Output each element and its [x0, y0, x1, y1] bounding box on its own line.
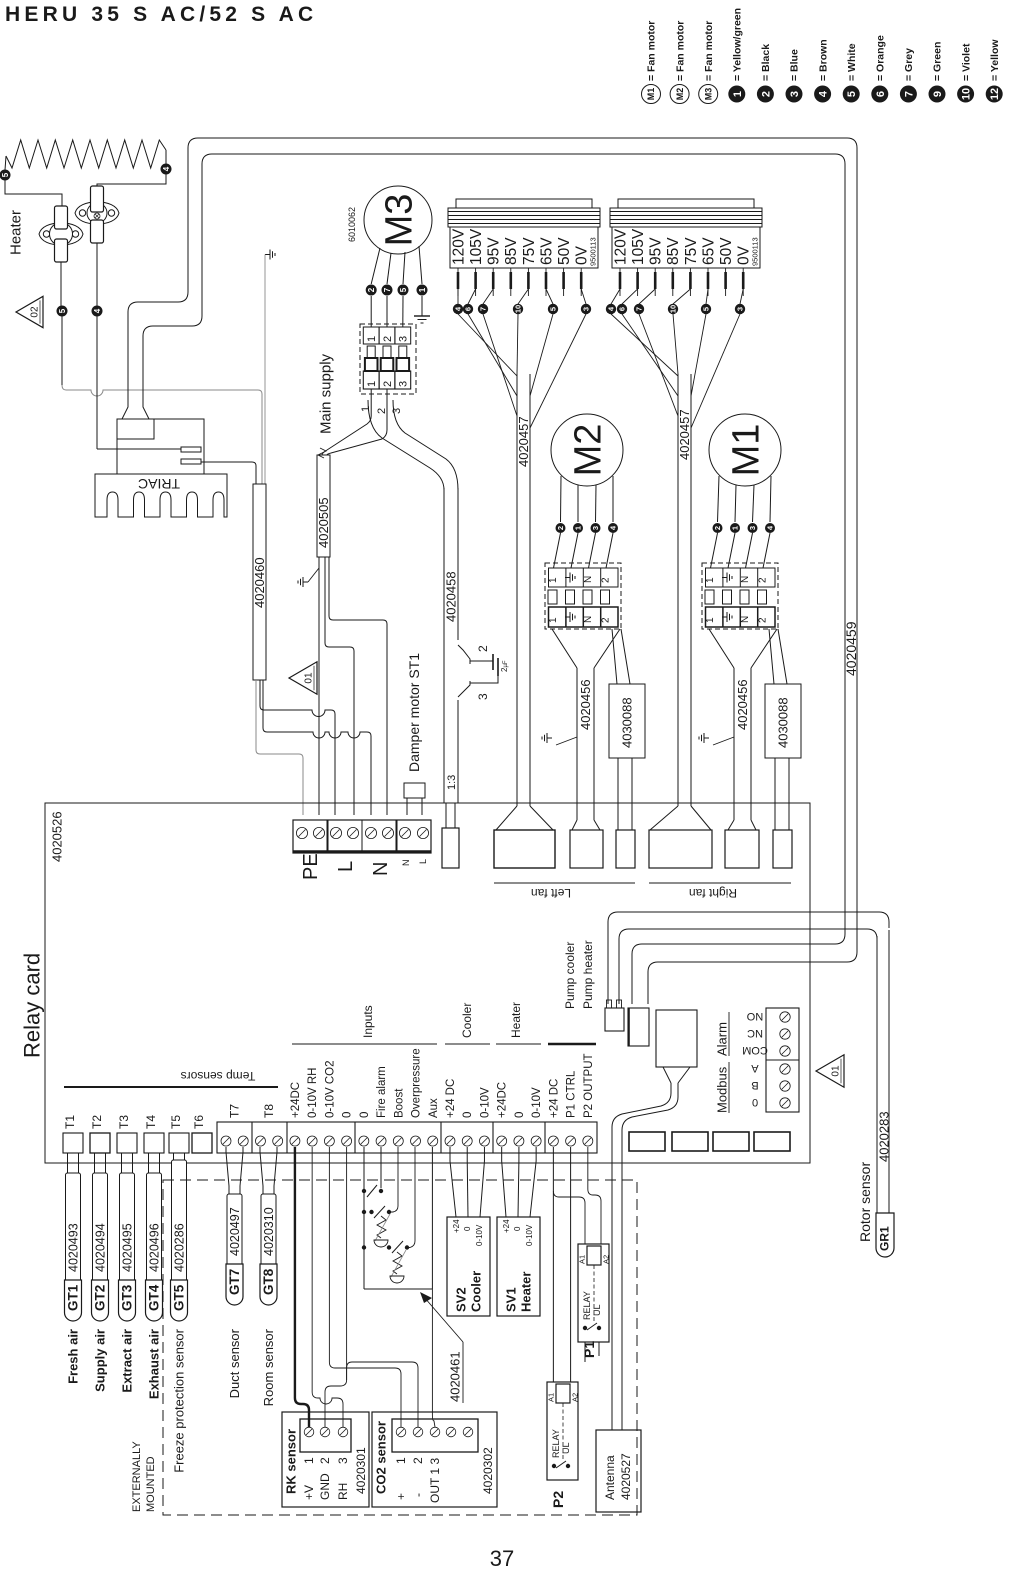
wire 0-10V CO2 to CO2 sensor pin 1 [329, 1147, 401, 1427]
wires to SV2 [449, 1147, 451, 1161]
relay P1 [578, 1244, 609, 1342]
svg-text:Exhaust air: Exhaust air [147, 1329, 162, 1399]
mains terminal screw [365, 827, 376, 838]
svg-text:Antenna: Antenna [603, 1455, 617, 1500]
svg-text:1: 1 [394, 1457, 408, 1464]
wires X1 to cable 4020458 [368, 400, 444, 490]
wires 4030088 right to relay card [774, 758, 776, 830]
tap stub wire [654, 268, 656, 296]
power module funnel to antenna cable [663, 1067, 671, 1083]
svg-text:65V: 65V [700, 237, 717, 265]
tap stub wire [510, 268, 512, 296]
cable 4020457 left fan [516, 374, 518, 806]
svg-text:4020527: 4020527 [619, 1453, 633, 1500]
M1 wire node 4 [770, 476, 771, 522]
svg-text:0: 0 [513, 1226, 522, 1231]
temp sensor terminal T1 [63, 1133, 83, 1153]
M1 connector pin stub 4 [758, 590, 767, 604]
TRIAC input connector [117, 419, 154, 439]
wire P2 OUTPUT to relay P1 A2 [588, 1147, 601, 1244]
svg-text:= Brown: = Brown [817, 39, 829, 81]
svg-text:4020283: 4020283 [877, 1111, 892, 1162]
svg-text:CO2 sensor: CO2 sensor [374, 1421, 389, 1494]
connector box 4030088 left [609, 684, 645, 758]
svg-text:L: L [418, 859, 428, 864]
svg-text:-: - [411, 1493, 425, 1497]
svg-text:Rotor sensor: Rotor sensor [857, 1162, 873, 1242]
svg-text:1: 1 [548, 577, 559, 583]
CO2 sensor screw [430, 1427, 440, 1437]
transformer 1:3 box [442, 828, 459, 868]
M2 wire node 2 [560, 476, 563, 522]
thermostat F1 (overheat) [39, 223, 83, 245]
svg-text:B: B [751, 1079, 758, 1091]
wires X1 to cable 4020505 [322, 389, 371, 455]
strip screw terminal [514, 1136, 524, 1146]
svg-text:4020460: 4020460 [252, 557, 267, 608]
svg-text:RELAY: RELAY [582, 1291, 592, 1320]
svg-text:1: 1 [360, 406, 372, 412]
svg-text:120V: 120V [612, 228, 629, 265]
svg-text:4030088: 4030088 [776, 697, 791, 748]
svg-text:N: N [370, 862, 392, 876]
terminal strip divider [440, 1122, 442, 1153]
svg-text:2: 2 [601, 617, 612, 623]
svg-text:2: 2 [556, 526, 565, 530]
strip screw terminal [462, 1136, 472, 1146]
svg-text:105V: 105V [468, 228, 485, 265]
svg-text:Left fan: Left fan [531, 886, 571, 900]
svg-text:1:3: 1:3 [446, 775, 458, 790]
M1 connector pin stub 3 [740, 590, 749, 604]
svg-text:= Green: = Green [932, 42, 944, 81]
tap stub wire [492, 268, 494, 296]
CO2 sensor screw [396, 1427, 406, 1437]
svg-text:T5: T5 [169, 1115, 183, 1129]
temp sensor terminal T5 [169, 1133, 189, 1153]
svg-text:4020459: 4020459 [843, 621, 859, 676]
svg-text:4020456: 4020456 [735, 679, 750, 730]
svg-text:6010062: 6010062 [347, 207, 357, 242]
legend item 2 = Black [757, 86, 774, 103]
svg-text:2: 2 [382, 336, 394, 342]
tap stub wire [545, 268, 547, 296]
M2 wire node 3 [595, 485, 598, 522]
wire top outer (to 4020459) [188, 138, 857, 1004]
relay card bottom plug 2 [672, 1132, 708, 1151]
CO2 sensor screw [446, 1427, 456, 1437]
M1 connector pin labels e [722, 573, 732, 583]
svg-text:37: 37 [490, 1546, 514, 1571]
terminal strip divider [544, 1122, 546, 1153]
wire branch to relay P1 A1 [553, 1191, 585, 1244]
svg-text:Heater: Heater [519, 1272, 534, 1312]
svg-text:Overpressure: Overpressure [411, 1048, 423, 1118]
relay card bottom plug 4 [754, 1132, 790, 1151]
strip screw terminal [238, 1136, 248, 1146]
wires 4020460 to relay card PE/L/N [256, 680, 303, 815]
svg-text:65V: 65V [538, 237, 555, 265]
tap stub wire [742, 268, 744, 296]
svg-text:3: 3 [591, 526, 600, 530]
svg-text:EXTERNALLY: EXTERNALLY [131, 1441, 143, 1512]
legend item M2 = Fan motor [670, 85, 689, 104]
svg-text:= Fan motor: = Fan motor [703, 21, 715, 81]
M2 cable funnel [552, 629, 577, 668]
connector X1 plug pin 1 [365, 358, 378, 371]
svg-text:7: 7 [903, 91, 915, 97]
sensor designator GT5 [171, 1280, 188, 1321]
svg-text:GND: GND [318, 1473, 332, 1500]
svg-text:3: 3 [476, 693, 490, 700]
RK sensor screw [304, 1427, 314, 1437]
svg-text:6: 6 [618, 307, 627, 311]
svg-text:NO: NO [746, 1010, 763, 1022]
svg-text:Supply air: Supply air [93, 1329, 108, 1392]
fan connector socket left big [494, 830, 555, 868]
svg-text:50V: 50V [718, 237, 735, 265]
tap wire node 5 [706, 289, 708, 304]
svg-text:SV2: SV2 [454, 1287, 469, 1312]
heater terminal 4 [165, 150, 167, 164]
cable 4020457 left fan funnel [496, 806, 517, 830]
svg-text:3: 3 [391, 408, 403, 414]
svg-text:3: 3 [398, 336, 410, 342]
svg-text:T7: T7 [228, 1104, 242, 1118]
svg-text:Alarm: Alarm [715, 1022, 730, 1056]
svg-text:0: 0 [359, 1112, 371, 1118]
strip screw terminal [445, 1136, 455, 1146]
tap stub wire [637, 268, 639, 296]
svg-text:75V: 75V [521, 237, 538, 265]
svg-text:0-10V: 0-10V [525, 1224, 534, 1246]
M2 connector pin stub 2 [566, 590, 575, 604]
tap wire node 6 [468, 289, 476, 304]
tap stub wire [563, 268, 565, 296]
connector X1 upper pin 1 [363, 327, 379, 344]
svg-text:4020496: 4020496 [147, 1223, 161, 1272]
svg-text:T6: T6 [192, 1115, 206, 1129]
strip screw terminal [376, 1136, 386, 1146]
svg-text:T1: T1 [63, 1115, 77, 1129]
legend item 10 = Violet [957, 86, 974, 103]
strip screw terminal [548, 1136, 558, 1146]
terminal strip divider [251, 1122, 253, 1153]
svg-text:+24 DC: +24 DC [445, 1079, 457, 1118]
svg-text:10: 10 [669, 305, 678, 313]
svg-text:= Yellow/green: = Yellow/green [731, 8, 743, 81]
switch boost [362, 1210, 366, 1214]
wire heater-5 to thermostat F1 [5, 180, 62, 207]
switch overpressure [362, 1245, 366, 1249]
tap stub wire [707, 268, 709, 296]
strip screw terminal [273, 1136, 283, 1146]
svg-text:T2: T2 [90, 1115, 104, 1129]
svg-text:= Grey: = Grey [903, 48, 915, 81]
mains terminal screw [417, 827, 428, 838]
rotor sensor connector GR1 [876, 1213, 894, 1257]
sensor cable GT1 4020493 [67, 1153, 69, 1173]
svg-text:+24: +24 [452, 1219, 461, 1233]
svg-text:Modbus: Modbus [715, 1066, 730, 1113]
svg-text:A1: A1 [547, 1393, 556, 1402]
power module box [656, 1010, 697, 1067]
svg-text:OUT 1 3: OUT 1 3 [428, 1458, 442, 1503]
svg-text:2: 2 [376, 408, 388, 414]
valve box SV2 Cooler [447, 1217, 490, 1316]
svg-text:Right fan: Right fan [689, 886, 737, 900]
M1 connector pin stub 2 [723, 590, 732, 604]
sensor cable GT8 4020310 [261, 1194, 276, 1266]
svg-text:01: 01 [304, 672, 315, 684]
TRIAC terminal 1 [181, 447, 201, 452]
strip screw terminal [221, 1136, 231, 1146]
svg-text:4020456: 4020456 [578, 679, 593, 730]
fan motor M1 [709, 414, 781, 486]
svg-text:Relay card: Relay card [20, 953, 45, 1058]
alarm/modbus screw A [780, 1064, 790, 1074]
wires 4030088 to relay card [617, 758, 619, 830]
connector X1 lower pin 2 [379, 371, 395, 389]
svg-text:= Fan motor: = Fan motor [674, 21, 686, 81]
svg-text:4030088: 4030088 [620, 697, 635, 748]
svg-text:PE: PE [300, 853, 322, 880]
wire capacitor 2 [470, 660, 493, 662]
cable 4020456 right [733, 668, 735, 820]
mains terminal screw [330, 827, 341, 838]
svg-text:01: 01 [831, 1065, 842, 1077]
svg-text:6: 6 [875, 91, 887, 97]
wire 0 to RK sensor GND [325, 1147, 347, 1427]
fan connector socket right mid [725, 830, 759, 868]
svg-text:105V: 105V [630, 228, 647, 265]
terminal strip divider [354, 1122, 356, 1153]
svg-text:3: 3 [789, 91, 801, 97]
svg-text:0-10V: 0-10V [531, 1087, 543, 1118]
strip screw terminal [479, 1136, 489, 1146]
tap wire node 10 [673, 289, 690, 304]
sensor designator GT7 [226, 1264, 243, 1305]
connector X1 upper pin 3 [395, 327, 411, 344]
strip screw terminal [290, 1136, 300, 1146]
svg-text:M2: M2 [568, 424, 610, 477]
fan motor M2 [551, 414, 623, 486]
svg-text:GT1: GT1 [66, 1284, 81, 1311]
svg-text:9: 9 [932, 91, 944, 97]
M1 wire node 2 [718, 476, 720, 522]
M1 connector (dashed) [702, 563, 778, 629]
tap stub wire [672, 268, 674, 296]
strip screw terminal [497, 1136, 507, 1146]
relay card outline [45, 803, 810, 1163]
svg-text:2: 2 [318, 1457, 332, 1464]
svg-text:4020457: 4020457 [516, 416, 531, 467]
sensor plug J1 [605, 1008, 624, 1031]
svg-text:2: 2 [476, 645, 490, 652]
svg-text:1: 1 [732, 91, 744, 97]
svg-text:7: 7 [383, 287, 392, 292]
svg-text:4020494: 4020494 [93, 1223, 107, 1272]
svg-text:85V: 85V [665, 237, 682, 265]
svg-text:A2: A2 [571, 1393, 580, 1402]
wire S-bend inner into TRIAC connector [143, 170, 202, 419]
mains terminal block PE L N [293, 820, 431, 853]
Left fan label [494, 882, 635, 884]
svg-text:Freeze protection sensor: Freeze protection sensor [172, 1328, 187, 1472]
svg-text:N: N [583, 616, 594, 623]
svg-text:= White: = White [846, 43, 858, 81]
sensor cable GT7 wires from T7 [226, 1147, 229, 1194]
svg-text:0-10V RH: 0-10V RH [307, 1068, 319, 1119]
svg-text:1: 1 [366, 381, 378, 387]
svg-text:Main supply: Main supply [317, 353, 334, 434]
svg-text:5: 5 [1, 172, 10, 177]
tap wire node 7 [639, 289, 655, 304]
svg-text:0-10V: 0-10V [475, 1224, 484, 1246]
svg-text:Boost: Boost [393, 1088, 405, 1118]
wire P1 CTRL down to relay P2 [570, 1147, 572, 1382]
svg-text:Damper motor ST1: Damper motor ST1 [406, 653, 422, 772]
svg-text:3: 3 [582, 307, 591, 311]
svg-text:5: 5 [702, 307, 711, 311]
svg-text:+24DC: +24DC [290, 1082, 302, 1118]
wires M1 connector to 4030088 [769, 629, 774, 684]
svg-text:Fresh air: Fresh air [66, 1329, 81, 1384]
svg-text:4020497: 4020497 [228, 1207, 242, 1256]
svg-text:M1: M1 [726, 424, 768, 477]
sensor cable GT2 4020494 [94, 1153, 96, 1173]
Right fan label [649, 882, 791, 884]
connector X1 pin stub 1 [367, 346, 375, 358]
antenna cable wires [612, 1083, 671, 1430]
svg-text:7: 7 [479, 307, 488, 311]
legend item 7 = Grey [900, 86, 917, 103]
svg-text:N: N [401, 860, 411, 867]
svg-text:SV1: SV1 [504, 1287, 519, 1312]
svg-text:RELAY: RELAY [551, 1429, 561, 1458]
relay card bottom plug 3 [713, 1132, 749, 1151]
wires M3 to connector with wire nodes 2 7 5 1 [371, 248, 380, 284]
relay P2 [547, 1382, 578, 1480]
svg-text:M1: M1 [646, 88, 656, 101]
M1 wire node 3 [753, 485, 755, 522]
wire F2 to TRIAC [97, 448, 181, 450]
sensor designator GT1 [65, 1280, 82, 1321]
overpressure horn symbol [393, 1252, 402, 1274]
earth tap on supply cable [308, 568, 319, 582]
relay card bottom plug 1 [629, 1132, 665, 1151]
strip screw terminal [428, 1136, 438, 1146]
TRIAC heatsink with TRIAC label [95, 474, 227, 517]
M1 connector upper row [706, 568, 776, 587]
svg-text:Duct sensor: Duct sensor [227, 1328, 242, 1398]
M2 connector pin stub 3 [583, 590, 592, 604]
svg-text:0: 0 [514, 1112, 526, 1118]
svg-text:4: 4 [93, 308, 102, 313]
svg-text:= Violet: = Violet [960, 43, 972, 81]
svg-text:95V: 95V [648, 237, 665, 265]
svg-text:1: 1 [302, 1457, 316, 1464]
wire 0 branch to CO2 sensor pin 2 [347, 1362, 418, 1427]
svg-text:P1: P1 [581, 1341, 597, 1358]
tap stub wire [580, 268, 582, 296]
wire 0-10V RH to RK sensor RH with hop [312, 1147, 343, 1427]
tap stub wire [689, 268, 691, 296]
svg-text:0: 0 [342, 1112, 354, 1118]
tap stub wire [725, 268, 727, 296]
temp sensor terminal T2 [90, 1133, 110, 1153]
M1 wire node 1 [735, 485, 736, 522]
svg-text:GT4: GT4 [147, 1284, 162, 1311]
svg-text:GT7: GT7 [227, 1269, 242, 1295]
svg-text:A1: A1 [578, 1255, 587, 1264]
fan connector socket right small [773, 830, 792, 868]
relay P1 contact stubs [584, 1342, 586, 1362]
svg-text:GT3: GT3 [120, 1284, 135, 1311]
mains terminal screw [399, 827, 410, 838]
svg-text:02: 02 [30, 306, 41, 318]
alarm/modbus screw COM [780, 1046, 790, 1056]
fan speed transformer winding block [618, 199, 754, 208]
svg-text:+: + [394, 1493, 408, 1500]
temp sensor terminal T6 [192, 1133, 212, 1153]
legend item 5 = White [843, 86, 860, 103]
damper motor connector [404, 783, 425, 798]
connector box 4030088 right [765, 684, 801, 758]
svg-text:4020526: 4020526 [50, 811, 65, 862]
fan connector socket right big [649, 830, 712, 868]
wires cable 4020458 into 1:3 box [445, 803, 447, 828]
svg-text:75V: 75V [683, 237, 700, 265]
svg-text:Heater: Heater [7, 210, 24, 255]
connector X1 upper pin 2 [379, 327, 395, 344]
svg-text:5: 5 [549, 307, 558, 311]
svg-text:Room sensor: Room sensor [261, 1328, 276, 1406]
svg-text:UL: UL [561, 1442, 571, 1454]
alarm/modbus screw NC [780, 1029, 790, 1039]
heater element R zigzag [6, 140, 166, 168]
sensor cable GT5 4020286 [172, 1160, 187, 1282]
terminal strip divider [286, 1122, 288, 1153]
sensor designator GT4 [146, 1280, 163, 1321]
cable 4020456 left [576, 668, 578, 820]
tap wire node 5 [546, 289, 553, 304]
svg-text:Pump heater: Pump heater [581, 940, 595, 1009]
svg-text:GT2: GT2 [93, 1285, 108, 1311]
legend item 9 = Green [929, 86, 946, 103]
svg-text:0-10V: 0-10V [479, 1087, 491, 1118]
svg-text:+V: +V [302, 1485, 316, 1500]
wire F2 down with node 4 [96, 243, 98, 306]
svg-text:4020493: 4020493 [66, 1223, 80, 1272]
fan connector socket left small [616, 830, 635, 868]
svg-text:6: 6 [464, 307, 473, 311]
alarm/modbus screw NO [780, 1012, 790, 1022]
svg-text:A2: A2 [602, 1255, 611, 1264]
svg-text:Aux: Aux [428, 1098, 440, 1118]
tap stub wire [475, 268, 477, 296]
externally mounted boundary (dashed) [163, 1180, 637, 1515]
mains terminal screw [382, 827, 393, 838]
svg-text:Cooler: Cooler [469, 1271, 484, 1312]
svg-text:M3: M3 [379, 194, 421, 247]
svg-text:N: N [740, 576, 751, 583]
thermostat F2 (overheat) [75, 202, 119, 224]
svg-text:120V: 120V [450, 228, 467, 265]
svg-text:2: 2 [601, 577, 612, 583]
svg-text:T8: T8 [262, 1104, 276, 1118]
svg-text:= Orange: = Orange [874, 35, 886, 81]
